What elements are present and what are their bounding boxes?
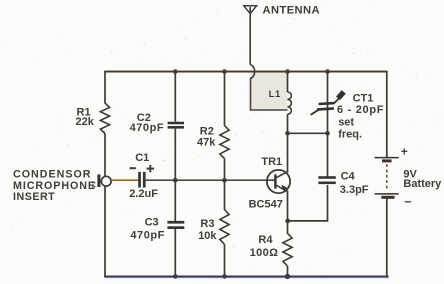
- svg-text:L1: L1: [269, 89, 281, 100]
- inductor L1 coil: [288, 92, 292, 114]
- wire: CT1 branch from top rail: [327, 71, 329, 133]
- wire: R2 to base wire: [224, 159, 226, 181]
- svg-text:C1: C1: [135, 152, 149, 164]
- condenser microphone insert MIC1: [92, 174, 111, 187]
- node: bottom rail / R4 branch: [285, 274, 290, 279]
- wire: C2 to base wire: [174, 129, 176, 181]
- node: base wire / C2-C3 branch: [173, 178, 178, 183]
- wire: C1 to base node (with junctions): [146, 179, 275, 181]
- svg-text:10k: 10k: [198, 230, 217, 242]
- label R2 47k: [197, 126, 216, 149]
- capacitor C4: [318, 176, 335, 184]
- label CT1 6-20pF set freq.: [337, 93, 384, 141]
- inductor L1 shaded box: [251, 72, 288, 111]
- wire: antenna hop over top rail: [250, 65, 254, 79]
- svg-text:–: –: [404, 194, 411, 209]
- wire: C3 to bottom rail: [174, 229, 176, 277]
- transistor TR1 (BC547 NPN): [267, 170, 290, 193]
- wire: R4 top (emitter node to R4): [287, 221, 289, 234]
- trimmer capacitor CT1: [311, 92, 344, 115]
- wire: R3 to bottom rail: [224, 244, 226, 277]
- resistor R4: [283, 233, 292, 266]
- resistor R3: [220, 210, 229, 245]
- wire: collector (tank node to transistor): [287, 133, 289, 172]
- wire: C4 branch from CT1 bottom junction: [327, 133, 329, 176]
- node: tank node at coil bottom: [285, 131, 290, 136]
- wire: emitter node to C4 bottom: [288, 185, 328, 221]
- svg-text:MICROPHONE: MICROPHONE: [13, 180, 96, 192]
- svg-text:R4: R4: [258, 234, 273, 246]
- label C1 polarity and value: [129, 152, 158, 200]
- capacitor C2: [168, 122, 184, 129]
- wire: emitter (transistor to emitter node): [287, 191, 289, 221]
- label C2 470pF: [130, 112, 165, 134]
- node: top rail / R2 branch: [222, 69, 227, 74]
- label C3 470pF: [130, 216, 165, 241]
- svg-text:+: +: [401, 144, 408, 158]
- svg-text:47k: 47k: [197, 136, 216, 148]
- wire: left rail (R1 to microphone): [104, 134, 106, 177]
- node: top rail / C2 branch: [173, 69, 178, 74]
- wire: base wire to C3: [174, 180, 176, 221]
- wire: bottom rail: [104, 276, 388, 277]
- node: top rail / CT1 branch: [325, 69, 330, 74]
- svg-text:CT1: CT1: [353, 93, 374, 105]
- node: top rail / L1 branch: [285, 69, 290, 74]
- wire: R2 branch from top rail: [224, 71, 226, 126]
- label C4 3.3pF: [340, 171, 369, 196]
- svg-text:R3: R3: [200, 218, 214, 230]
- capacitor C3: [167, 221, 184, 229]
- svg-text:22k: 22k: [76, 116, 95, 128]
- svg-text:100Ω: 100Ω: [250, 247, 279, 259]
- label R4 100ohm: [250, 234, 279, 259]
- svg-text:ANTENNA: ANTENNA: [263, 5, 321, 17]
- svg-text:C3: C3: [145, 216, 159, 228]
- svg-text:set: set: [338, 117, 354, 129]
- wire: right rail (top rail to battery +): [386, 71, 388, 157]
- wire: C2 branch from top rail: [174, 71, 176, 121]
- svg-text:6 - 20pF: 6 - 20pF: [337, 104, 384, 116]
- svg-text:C4: C4: [341, 171, 356, 183]
- svg-text:CONDENSOR: CONDENSOR: [13, 169, 91, 181]
- resistor R2: [220, 126, 229, 159]
- svg-text:INSERT: INSERT: [13, 191, 55, 203]
- battery BT1 9V: [375, 158, 399, 198]
- svg-text:TR1: TR1: [261, 156, 282, 168]
- wire: top rail: [104, 71, 387, 72]
- svg-text:470pF: 470pF: [130, 122, 165, 134]
- antenna AE1: [244, 6, 257, 65]
- svg-text:3.3pF: 3.3pF: [340, 184, 369, 196]
- wire: mic to C1 (base line left): [111, 179, 138, 181]
- svg-text:2.2uF: 2.2uF: [129, 188, 158, 200]
- label CONDENSOR MICROPHONE INSERT: [13, 169, 96, 203]
- node: base wire / R2-R3 branch: [222, 178, 227, 183]
- wire: base wire to R3: [224, 180, 226, 210]
- label R3 10k: [198, 218, 217, 242]
- svg-text:freq.: freq.: [338, 129, 362, 141]
- svg-text:Battery: Battery: [403, 178, 442, 190]
- capacitor C1 (electrolytic, series): [138, 172, 145, 188]
- wire: left rail (upper, top rail to R1): [104, 71, 106, 103]
- node: CT1 bottom junction: [325, 131, 330, 136]
- wire: left rail (microphone to bottom rail): [104, 186, 106, 277]
- label 9V Battery: [403, 168, 442, 189]
- label R1 22k: [76, 107, 95, 128]
- node: emitter / R4 / C4 junction: [285, 219, 290, 224]
- resistor R1: [100, 103, 109, 134]
- wire: L1 coil branch from top rail: [287, 71, 289, 92]
- node: bottom rail / R3 branch: [222, 274, 227, 279]
- wire: tank node to CT1 bottom: [288, 132, 328, 134]
- wire: R4 to bottom rail: [287, 266, 289, 277]
- svg-text:BC547: BC547: [249, 199, 283, 211]
- wire: coil to tank node: [287, 114, 289, 133]
- node: bottom rail / C3 branch: [173, 274, 178, 279]
- wire: battery - to bottom rail: [386, 197, 388, 277]
- svg-text:470pF: 470pF: [130, 230, 165, 242]
